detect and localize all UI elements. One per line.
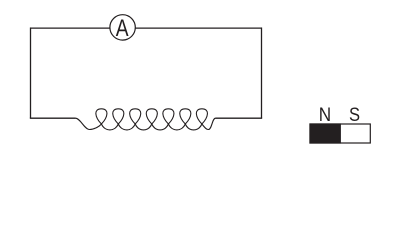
inductor coil L1 <box>76 109 216 130</box>
svg-text:S: S <box>349 104 360 126</box>
wire bottom-right segment <box>216 117 263 119</box>
wire bottom-left segment <box>30 117 76 119</box>
magnet black pole (left half) <box>309 123 341 143</box>
wire top-right segment <box>135 27 261 29</box>
ammeter A1 circle <box>110 15 135 40</box>
svg-text:N: N <box>319 103 331 125</box>
svg-text:A: A <box>116 14 129 42</box>
magnet body outline <box>310 124 370 143</box>
wire : circuit rectangle (top gap for ammeter, bottom gap for coil) <box>30 27 262 118</box>
wire top-left segment <box>31 27 111 29</box>
wire left side <box>30 27 32 118</box>
wire right side <box>261 27 263 118</box>
